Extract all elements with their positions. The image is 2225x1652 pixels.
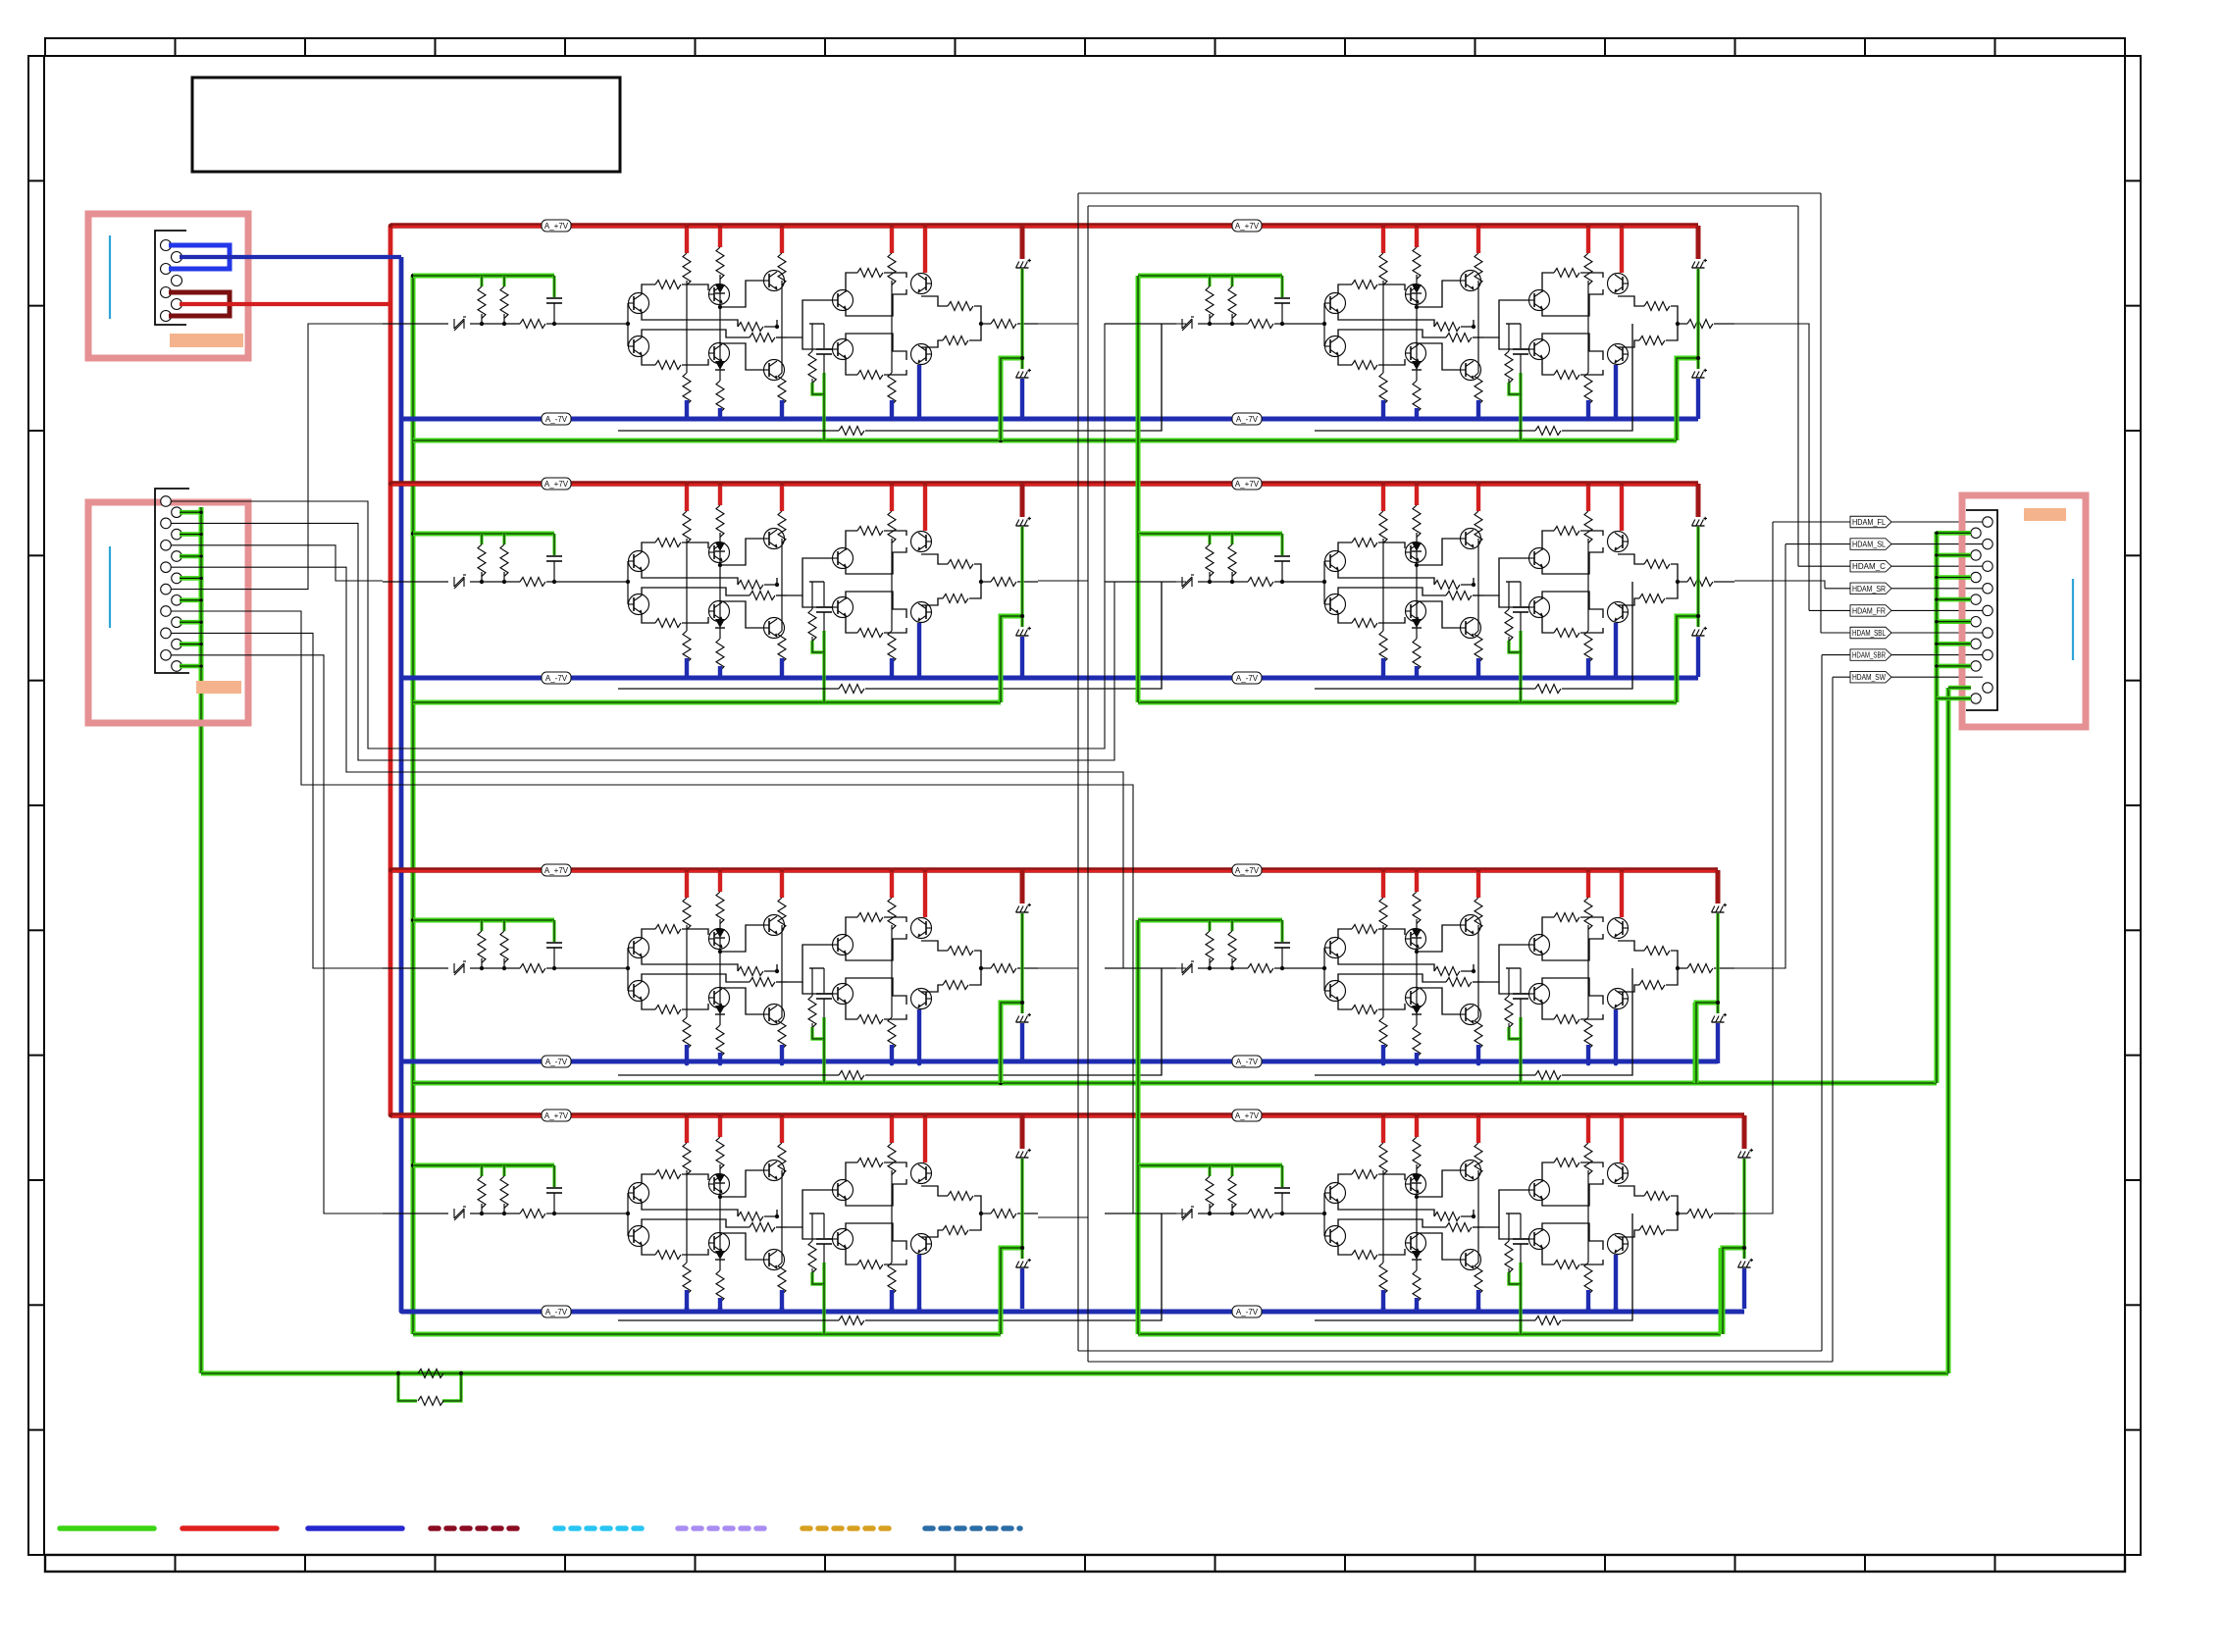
svg-text:HDAM_FR: HDAM_FR [1852,606,1886,615]
svg-text:A_+7V: A_+7V [1235,866,1260,875]
svg-text:A_-7V: A_-7V [545,1308,568,1316]
svg-text:HDAM_SR: HDAM_SR [1852,585,1886,594]
svg-text:A_+7V: A_+7V [1235,222,1260,231]
svg-text:A_-7V: A_-7V [1236,415,1259,424]
svg-text:HDAM_SW: HDAM_SW [1852,673,1886,682]
svg-text:A_-7V: A_-7V [1236,674,1259,683]
svg-text:HDAM_C: HDAM_C [1852,562,1886,571]
svg-text:HDAM_SBL: HDAM_SBL [1852,629,1886,638]
svg-text:A_+7V: A_+7V [544,866,569,875]
svg-text:A_-7V: A_-7V [1236,1058,1259,1066]
svg-text:A_+7V: A_+7V [1235,1111,1260,1120]
svg-text:A_+7V: A_+7V [544,222,569,231]
svg-text:A_+7V: A_+7V [544,480,569,489]
svg-text:A_-7V: A_-7V [1236,1308,1259,1316]
svg-text:A_+7V: A_+7V [1235,480,1260,489]
svg-text:A_+7V: A_+7V [544,1111,569,1120]
svg-text:HDAM_SBR: HDAM_SBR [1852,651,1886,660]
svg-text:HDAM_FL: HDAM_FL [1852,518,1886,527]
svg-text:A_-7V: A_-7V [545,1058,568,1066]
svg-text:A_-7V: A_-7V [545,674,568,683]
svg-text:A_-7V: A_-7V [545,415,568,424]
svg-text:HDAM_SL: HDAM_SL [1852,541,1886,549]
